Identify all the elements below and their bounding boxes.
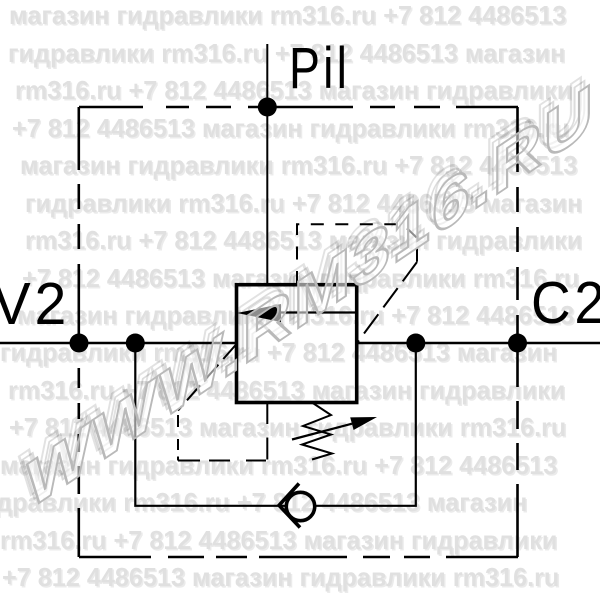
svg-text:WWW.RM316.RU: WWW.RM316.RU — [27, 67, 595, 526]
